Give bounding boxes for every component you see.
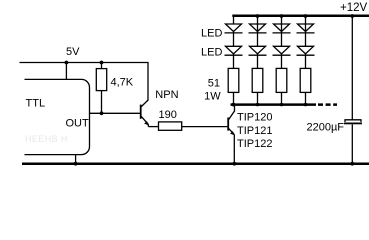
wire: Q1 emitter to R5	[148, 126, 158, 128]
junction: string 2 anode	[256, 14, 260, 18]
collector bus	[231, 103, 317, 106]
resistor R4 51 ohm	[300, 68, 311, 92]
svg-text:51: 51	[208, 77, 220, 89]
capacitor C1 2200uF	[344, 120, 362, 125]
junction: 5V to TTL Vcc	[65, 61, 69, 65]
+12V supply bus	[232, 15, 369, 18]
junction: R1 to collector bus	[232, 103, 236, 107]
collector bus continuation (dashed)	[318, 103, 337, 106]
svg-text:OUT: OUT	[66, 118, 90, 130]
wire: 5V to R6 top	[101, 63, 103, 69]
wire: D1 to D2	[233, 32, 235, 47]
wire: R4 to collector bus	[305, 92, 307, 104]
junction: TTL ground stub to ground bus	[74, 162, 78, 166]
junction: +12V rail to bus	[350, 14, 354, 18]
wire: TTL Vcc stub	[65, 63, 67, 80]
svg-text:HEEHB H: HEEHB H	[25, 134, 68, 144]
svg-text:TIP122: TIP122	[237, 138, 272, 150]
svg-text:TIP120: TIP120	[237, 112, 272, 124]
resistor R5 190 ohm	[159, 122, 182, 130]
junction: capacitor to ground bus	[350, 162, 354, 166]
wire: bus to LED string 3	[281, 17, 283, 46]
LED D2 (string1 bottom)	[225, 46, 243, 55]
transistor Q2 TIP120	[228, 106, 234, 163]
svg-text:+12V: +12V	[340, 2, 368, 14]
LED D1 (string1 top)	[225, 24, 243, 33]
svg-text:TIP121: TIP121	[237, 125, 272, 137]
wire: 5V rail with corner down to Q1 collector	[20, 63, 149, 101]
wire: bus corner down to LED string 1	[233, 15, 235, 24]
wire: R5 to Q2 base	[182, 126, 228, 128]
svg-text:190: 190	[159, 109, 177, 121]
wire: R1 to collector bus	[233, 92, 235, 104]
LED D3 (string2 top)	[249, 24, 267, 33]
wire: +12V rail down to capacitor	[351, 17, 353, 120]
LED D8 (string4 bottom)	[297, 46, 315, 55]
LED D4 (string2 bottom)	[249, 46, 267, 55]
wire: bus to LED string 4	[305, 17, 307, 46]
wire: TTL OUT to Q1 base	[90, 112, 140, 114]
svg-text:4,7K: 4,7K	[111, 77, 134, 89]
junction: R6 to base wire	[100, 111, 104, 115]
junction: R4 to collector bus	[304, 103, 307, 106]
svg-text:2200µF: 2200µF	[307, 121, 345, 133]
wire: D4 to R2	[257, 54, 259, 69]
junction: R3 to collector bus	[280, 103, 283, 106]
wire: D2 to R1	[233, 54, 235, 69]
TTL device box	[25, 79, 90, 154]
svg-text:TTL: TTL	[26, 97, 46, 109]
junction: 5V to R6	[100, 61, 104, 65]
junction: string 3 anode	[280, 14, 284, 18]
wire: R2 to collector bus	[257, 92, 259, 104]
svg-text:LED: LED	[201, 47, 222, 59]
svg-text:1W: 1W	[204, 91, 221, 103]
svg-text:NPN: NPN	[155, 89, 178, 101]
resistor R2 51 ohm	[252, 68, 263, 92]
junction: R2 to collector bus	[256, 103, 259, 106]
resistor R3 51 ohm	[276, 68, 287, 92]
wire: R6 bottom to base wire	[101, 91, 103, 114]
transistor Q1 NPN	[141, 100, 149, 127]
junction: Q2 emitter to ground bus	[232, 162, 236, 166]
wire: D6 to R3	[281, 54, 283, 69]
wire: R3 to collector bus	[281, 92, 283, 104]
wire: D8 to R4	[305, 54, 307, 69]
junction: string 4 anode	[304, 14, 308, 18]
svg-text:5V: 5V	[66, 46, 80, 58]
LED D6 (string3 bottom)	[273, 46, 291, 55]
LED D7 (string4 top)	[297, 24, 315, 33]
ground bus	[22, 162, 369, 165]
wire: bus to LED string 2	[257, 17, 259, 46]
wire: TTL ground stub	[75, 155, 77, 164]
wire: capacitor to ground bus	[351, 124, 353, 163]
resistor R6 4.7K	[96, 69, 106, 91]
resistor R1 51 ohm	[228, 68, 239, 92]
svg-text:LED: LED	[201, 28, 222, 40]
LED D5 (string3 top)	[273, 24, 291, 33]
